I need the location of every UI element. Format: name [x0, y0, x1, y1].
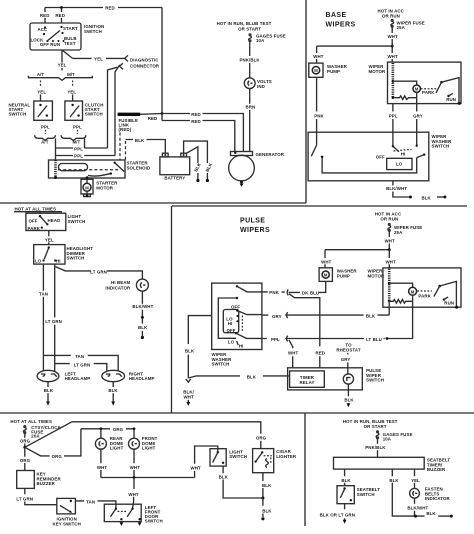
- svg-text:MOTOR: MOTOR: [369, 69, 386, 74]
- wiper motor field coil: [388, 269, 391, 301]
- svg-text:BLK: BLK: [135, 138, 145, 143]
- hi beam indicator: [136, 279, 148, 291]
- svg-text:M: M: [415, 87, 419, 92]
- rear dome light: [100, 429, 102, 438]
- wire BLK right headlamp ground: [112, 382, 114, 387]
- hi contact arm right: [417, 155, 424, 158]
- light switch arm: [40, 216, 47, 224]
- svg-text:GRY: GRY: [341, 357, 351, 362]
- lower switch arm: [235, 332, 237, 334]
- light switch box: [26, 213, 66, 230]
- svg-text:BLK: BLK: [219, 474, 229, 479]
- svg-text:BLK: BLK: [426, 511, 436, 516]
- svg-text:PPL: PPL: [74, 154, 83, 159]
- svg-text:YEL: YEL: [67, 89, 76, 94]
- svg-text:WHT: WHT: [130, 465, 141, 470]
- wire park pivot to motor return: [442, 78, 460, 104]
- svg-text:YEL: YEL: [58, 63, 67, 68]
- svg-text:RUN: RUN: [444, 300, 454, 305]
- wire GRY to pulse switch: [347, 362, 349, 374]
- svg-text:GENERATOR: GENERATOR: [256, 152, 285, 157]
- svg-text:HEADLAMP: HEADLAMP: [129, 376, 155, 381]
- svg-text:WHT: WHT: [313, 54, 324, 59]
- svg-text:PPL: PPL: [271, 337, 280, 342]
- svg-text:PPL: PPL: [389, 114, 398, 119]
- svg-text:LT GRN: LT GRN: [45, 319, 62, 324]
- svg-text:WHT: WHT: [183, 394, 194, 399]
- seatbelt switch: [337, 486, 354, 504]
- washer pump: [309, 63, 323, 77]
- svg-text:HI: HI: [401, 151, 406, 156]
- svg-text:WHT: WHT: [387, 54, 398, 59]
- ignition key switch: [57, 498, 76, 514]
- wire dashed stub M/T: [72, 81, 74, 87]
- battery: [160, 157, 190, 175]
- wire divider middle top: [172, 205, 467, 207]
- svg-text:YEL: YEL: [411, 478, 420, 483]
- front dome light: [133, 429, 135, 438]
- svg-text:WIPERS: WIPERS: [240, 227, 270, 234]
- wire TAN from dimmer LO: [42, 264, 44, 371]
- svg-text:GRY: GRY: [413, 114, 423, 119]
- wire motor lower: [416, 93, 418, 103]
- svg-text:HEADLAMP: HEADLAMP: [65, 376, 91, 381]
- ctsy/clock fuse 20A: [24, 426, 26, 428]
- wire drop to ignition switch right: [61, 8, 63, 24]
- seatbelt timer/buzzer: [334, 457, 425, 469]
- wire coil return to BLK row: [388, 301, 390, 315]
- svg-text:BLK: BLK: [262, 508, 272, 513]
- svg-text:BLK: BLK: [344, 398, 354, 403]
- svg-text:INDICATOR: INDICATOR: [105, 285, 131, 290]
- LO sub box: [387, 158, 412, 169]
- svg-text:SWITCH: SWITCH: [212, 362, 230, 367]
- wire dashed fusible link to solenoid: [119, 133, 121, 161]
- wire ORG diagonal to cigar row: [25, 422, 261, 449]
- run contact: [443, 298, 445, 300]
- wire divider vertical base-wipers: [305, 0, 307, 203]
- svg-text:OR START: OR START: [238, 27, 261, 32]
- wire to motor: [393, 81, 417, 85]
- wire washer bus: [322, 157, 417, 173]
- svg-text:YEL: YEL: [37, 89, 46, 94]
- svg-text:25A: 25A: [397, 25, 406, 30]
- svg-text:WIPERS: WIPERS: [326, 22, 356, 29]
- svg-text:SWITCH: SWITCH: [357, 492, 375, 497]
- wiper motor box: [383, 268, 461, 307]
- svg-text:INDICATOR: INDICATOR: [425, 496, 451, 501]
- svg-text:WHT: WHT: [384, 238, 395, 243]
- svg-text:SWITCH: SWITCH: [145, 519, 163, 524]
- wire BLK middle: [392, 469, 424, 516]
- dashed selector: [241, 316, 243, 332]
- svg-text:RED: RED: [40, 13, 50, 18]
- wire RED row 1 to generator: [162, 114, 243, 152]
- svg-text:SWITCH: SWITCH: [84, 29, 102, 34]
- svg-text:LT GRN: LT GRN: [90, 269, 107, 274]
- wire dashed BLK to solenoid: [125, 141, 127, 160]
- svg-text:SWITCH: SWITCH: [366, 378, 384, 383]
- wire WHT rear dome down: [100, 449, 102, 477]
- wire to motor: [389, 283, 412, 287]
- svg-text:HI BEAM: HI BEAM: [111, 280, 130, 285]
- wiper switch PPL contact: [392, 132, 394, 146]
- wiper motor field coil: [392, 63, 395, 98]
- wiper switch GRY contact: [416, 132, 418, 145]
- svg-text:BLK: BLK: [44, 388, 54, 393]
- svg-text:RED: RED: [191, 112, 201, 117]
- starter solenoid contact link: [88, 174, 110, 176]
- svg-text:BLK/WHT: BLK/WHT: [407, 506, 428, 511]
- generator: [231, 152, 253, 156]
- wire WHT to wiper motor: [391, 46, 393, 62]
- wire motor to LT BLU: [388, 296, 412, 338]
- wire ORG diagonal to dome row: [25, 429, 81, 456]
- run contact: [447, 95, 449, 97]
- svg-text:M: M: [314, 68, 318, 73]
- svg-text:SWITCH: SWITCH: [432, 144, 450, 149]
- svg-text:TAN: TAN: [86, 499, 95, 504]
- timer relay: [290, 371, 325, 387]
- svg-text:WHT: WHT: [385, 259, 396, 264]
- wire WHT front dome down: [133, 449, 135, 477]
- wire RED row 2 to generator: [162, 121, 235, 152]
- wire YEL down from ignition: [61, 50, 63, 63]
- svg-text:M/T: M/T: [67, 72, 75, 77]
- wire PPL junction vertical: [55, 139, 57, 161]
- wiper fuse 25A: [391, 20, 393, 22]
- svg-text:OR RUN: OR RUN: [382, 14, 400, 19]
- svg-text:PPL: PPL: [41, 124, 50, 129]
- svg-text:ACC: ACC: [38, 27, 49, 32]
- svg-text:BLK: BLK: [185, 348, 195, 353]
- wire ORG to buzzer: [24, 447, 26, 470]
- svg-text:A/T: A/T: [41, 140, 49, 145]
- connector PNK/DK BLU: [287, 290, 288, 296]
- wiper motor armature: [409, 287, 417, 295]
- starter solenoid box: [49, 160, 126, 178]
- wire BLK/WHT below switch: [392, 181, 394, 186]
- svg-text:BASE: BASE: [326, 12, 347, 19]
- svg-text:M: M: [324, 273, 328, 278]
- svg-text:LO: LO: [228, 340, 235, 345]
- svg-text:GRY: GRY: [272, 314, 282, 319]
- svg-text:DIAGNOSTIC: DIAGNOSTIC: [130, 58, 159, 63]
- wire LT GRN from dimmer HI: [54, 264, 56, 371]
- wire divider middle bottom: [0, 412, 474, 414]
- wire dashed stub A/T: [40, 81, 42, 87]
- wire into clutch start switch: [72, 95, 74, 102]
- svg-text:BATTERY: BATTERY: [164, 176, 185, 181]
- brace A/T: [35, 135, 56, 140]
- svg-text:MOTOR: MOTOR: [96, 185, 113, 190]
- dashed hi link: [394, 149, 412, 151]
- wire divider top-left bottom: [0, 202, 306, 204]
- pulse wiper washer switch box: [212, 283, 262, 349]
- svg-text:LIGHTER: LIGHTER: [276, 454, 297, 459]
- svg-text:TAN: TAN: [75, 354, 84, 359]
- fusible link bar: [118, 113, 141, 116]
- wire WHT from fuse: [391, 27, 393, 46]
- wire divider vertical bottom: [304, 414, 306, 527]
- svg-text:BLK: BLK: [366, 314, 376, 319]
- wire PPL row 1: [56, 147, 108, 149]
- svg-text:SWITCH: SWITCH: [85, 112, 103, 117]
- wire WHT row to light switch: [101, 477, 195, 479]
- ground BLK/WHT: [187, 400, 189, 402]
- svg-text:LT GRN: LT GRN: [16, 496, 33, 501]
- svg-text:TEST: TEST: [64, 41, 76, 46]
- svg-text:IND: IND: [257, 84, 265, 89]
- svg-text:PULSE: PULSE: [240, 218, 265, 225]
- wire WHT to washer pump: [316, 46, 318, 63]
- svg-text:WHT: WHT: [288, 351, 299, 356]
- wire into neutral start switch: [40, 95, 42, 102]
- svg-text:10A: 10A: [383, 437, 392, 442]
- svg-text:LIGHT: LIGHT: [110, 446, 124, 451]
- svg-text:OFF: OFF: [231, 304, 240, 309]
- diagnostic connector chevron 2: [120, 63, 124, 69]
- svg-text:BUZZER: BUZZER: [37, 481, 56, 486]
- svg-text:M: M: [85, 185, 89, 190]
- svg-text:SOLENOID: SOLENOID: [127, 165, 151, 170]
- svg-text:YEL: YEL: [45, 237, 54, 242]
- svg-text:(RED): (RED): [119, 127, 132, 132]
- svg-text:SWITCH: SWITCH: [229, 454, 247, 459]
- wire RED tap to timer relay: [289, 294, 320, 369]
- svg-text:RELAY: RELAY: [300, 380, 315, 385]
- wire RED vertical from top rail: [161, 8, 163, 121]
- washer switch arm: [316, 132, 318, 145]
- svg-text:A/T: A/T: [37, 72, 45, 77]
- inline connector chevron: [186, 379, 191, 382]
- wire M/T hook: [84, 139, 86, 149]
- inner bus: [218, 298, 237, 338]
- switch top arm: [236, 285, 238, 287]
- wire BRN: [249, 89, 251, 104]
- svg-text:OFF: OFF: [226, 328, 235, 333]
- svg-text:BLK: BLK: [341, 478, 351, 483]
- svg-text:BUZZER: BUZZER: [427, 467, 446, 472]
- svg-text:OFF: OFF: [376, 155, 385, 160]
- svg-text:BLK: BLK: [108, 388, 118, 393]
- svg-text:ORG: ORG: [20, 439, 31, 444]
- wire BLK OR LT GRN ground: [344, 504, 346, 510]
- wire PPL row 2: [56, 155, 116, 157]
- wire BLK/WHT below hi beam: [141, 291, 143, 304]
- svg-text:M: M: [411, 289, 415, 294]
- wire WHT from fuse: [388, 231, 390, 249]
- wiper washer switch box: [308, 132, 429, 181]
- wire WHT junction row: [317, 45, 393, 47]
- svg-text:BLK: BLK: [422, 195, 432, 200]
- starter solenoid coil: [54, 160, 57, 178]
- wire park pivot to corner: [440, 281, 457, 307]
- svg-text:OFF RUN: OFF RUN: [40, 42, 60, 47]
- wire LT GRN row to right headlamp: [55, 364, 107, 371]
- wire YEL from ignition to diagnostic connector: [62, 50, 125, 58]
- wire BLK row to battery: [126, 140, 166, 154]
- clutch start switch: [65, 101, 83, 120]
- wire WHT front dome to door switch: [133, 478, 135, 509]
- svg-text:BLK: BLK: [389, 478, 399, 483]
- wire BLK below pulse switch: [347, 384, 349, 396]
- wire BLK to seatbelt switch: [344, 469, 346, 486]
- wiper motor resistor: [393, 96, 417, 100]
- svg-text:KEY SWITCH: KEY SWITCH: [52, 522, 80, 527]
- wire BLK to ground: [141, 319, 143, 324]
- gages fuse: [249, 34, 251, 36]
- svg-text:BLK OR LT GRN: BLK OR LT GRN: [320, 513, 355, 518]
- svg-text:SWITCH: SWITCH: [67, 256, 85, 261]
- wire ORG from fuse: [24, 434, 26, 447]
- svg-text:HI: HI: [228, 321, 233, 326]
- fasten belts indicator: [410, 488, 420, 498]
- wire WHT tap to timer relay: [289, 340, 293, 368]
- svg-text:RUN: RUN: [446, 97, 456, 102]
- wire WHT to wiper motor: [388, 250, 390, 268]
- wire TAN to door switch: [75, 501, 116, 509]
- svg-text:BLK: BLK: [138, 325, 148, 330]
- svg-text:HI: HI: [56, 258, 61, 263]
- svg-text:WHT: WHT: [387, 34, 398, 39]
- park switch arm: [440, 81, 443, 84]
- wire dashed stubs below PPL: [45, 130, 47, 134]
- svg-text:HI: HI: [239, 343, 244, 348]
- wiper motor armature: [413, 85, 420, 92]
- svg-text:PNK: PNK: [269, 290, 279, 295]
- svg-text:PPL: PPL: [74, 146, 83, 151]
- svg-text:HEAD: HEAD: [48, 218, 61, 223]
- svg-text:LIGHT: LIGHT: [142, 446, 156, 451]
- svg-text:DK BLU: DK BLU: [302, 290, 319, 295]
- wire YEL to dimmer: [48, 231, 50, 245]
- wire WHT junction row: [325, 249, 389, 251]
- svg-text:ORG: ORG: [20, 458, 31, 463]
- svg-text:PNK/BLK: PNK/BLK: [365, 445, 386, 450]
- svg-text:WHT: WHT: [128, 492, 139, 497]
- generator ground: [240, 181, 243, 184]
- svg-text:BLK/WHT: BLK/WHT: [386, 186, 407, 191]
- svg-text:ORG: ORG: [256, 436, 267, 441]
- door switch grounds: [120, 522, 122, 523]
- starter solenoid plunger: [59, 164, 88, 171]
- A/T M/T bracket: [29, 76, 93, 81]
- wire BLK light switch down: [223, 466, 263, 498]
- wiper fuse 25A: [388, 224, 390, 226]
- svg-text:WHT: WHT: [321, 259, 332, 264]
- svg-text:LO: LO: [35, 258, 42, 263]
- starter solenoid dashed link: [58, 169, 120, 171]
- svg-text:WHT: WHT: [97, 465, 108, 470]
- wire BLK/WHT: [414, 498, 416, 504]
- diagnostic connector chevron 1: [125, 55, 128, 61]
- wire TAN row to right headlamp: [43, 355, 118, 370]
- wire BLK to ground: [262, 498, 264, 517]
- svg-text:LT BLU: LT BLU: [366, 337, 382, 342]
- svg-text:BLK: BLK: [193, 161, 202, 172]
- svg-text:BLK: BLK: [205, 161, 214, 172]
- svg-text:RED: RED: [105, 6, 115, 11]
- svg-text:HOT AT ALL TIMES: HOT AT ALL TIMES: [10, 419, 52, 424]
- svg-text:WHT: WHT: [191, 466, 202, 471]
- wire BLK switch return: [188, 316, 211, 378]
- svg-text:OFF: OFF: [29, 219, 38, 224]
- svg-text:START: START: [63, 26, 78, 31]
- upper switch arm: [236, 309, 238, 311]
- svg-text:M/T: M/T: [72, 140, 80, 145]
- svg-text:20A: 20A: [31, 434, 40, 439]
- svg-text:PNK: PNK: [314, 114, 324, 119]
- wire PNK washer pump to switch: [316, 77, 318, 132]
- svg-text:RED: RED: [148, 116, 158, 121]
- wire battery right terminal to ground: [184, 141, 208, 179]
- svg-text:LT GRN: LT GRN: [74, 362, 91, 367]
- wire PNK/BLK: [377, 439, 379, 444]
- svg-text:RHEOSTAT: RHEOSTAT: [336, 347, 361, 352]
- wire fusible link to junction: [140, 113, 162, 116]
- svg-text:TAN: TAN: [39, 292, 48, 297]
- svg-text:HOT IN RUN, BLUB TEST: HOT IN RUN, BLUB TEST: [217, 21, 272, 26]
- right headlamp: [102, 370, 125, 381]
- pulse switch rheostat: [343, 374, 353, 384]
- svg-text:SWITCH: SWITCH: [68, 219, 86, 224]
- wiper motor resistor: [389, 300, 412, 304]
- svg-text:PARK: PARK: [422, 90, 435, 95]
- wire BLK cigar lighter down: [262, 473, 264, 498]
- starter motor: [81, 179, 93, 194]
- svg-text:CONNECTOR: CONNECTOR: [130, 64, 160, 69]
- wire YEL to fasten belts indicator: [414, 469, 416, 488]
- wire feed into light switch: [39, 212, 41, 214]
- wire washer pump to DK BLU: [322, 281, 325, 292]
- washer pump: [319, 268, 332, 282]
- wire battery diagonal to ground: [187, 147, 198, 179]
- wire battery feed top rail RED: [45, 7, 162, 9]
- ignition switch box: [30, 23, 81, 50]
- wire LT GRN branch to hi beam: [55, 267, 142, 280]
- svg-text:TIMER: TIMER: [300, 375, 315, 380]
- gages fuse 10A: [377, 431, 379, 433]
- wire BLK left headlamp ground: [47, 382, 49, 387]
- svg-text:PARK: PARK: [28, 226, 41, 231]
- svg-text:LO: LO: [396, 161, 403, 166]
- svg-text:BLK: BLK: [262, 483, 272, 488]
- wire drop to ignition switch left: [44, 8, 46, 24]
- wire WHT to washer pump: [324, 250, 326, 268]
- park switch dashed link: [417, 290, 432, 292]
- svg-text:OR START: OR START: [364, 424, 387, 429]
- volts indicator: [244, 78, 255, 89]
- svg-text:BRN: BRN: [245, 105, 255, 110]
- wire WHT to bottom light switch: [195, 446, 218, 478]
- svg-text:PUMP: PUMP: [337, 273, 350, 278]
- wire GRY motor to switch: [416, 104, 418, 133]
- wire PPL to diagnostic connector 2: [115, 65, 120, 156]
- svg-text:RED: RED: [191, 119, 201, 124]
- key reminder buzzer: [17, 471, 35, 489]
- svg-text:PARK: PARK: [418, 294, 431, 299]
- park switch arm: [438, 285, 441, 288]
- svg-text:BLK: BLK: [247, 375, 257, 380]
- wire PPL to diagnostic connector 1: [108, 67, 118, 148]
- light switch (courtesy): [210, 449, 226, 466]
- wire LT GRN buzzer to key switch: [25, 488, 57, 504]
- svg-text:SWITCH: SWITCH: [9, 112, 27, 117]
- svg-text:HOT AT ALL TIMES: HOT AT ALL TIMES: [15, 206, 57, 211]
- svg-text:PUMP: PUMP: [327, 69, 340, 74]
- svg-text:ORG: ORG: [113, 427, 124, 432]
